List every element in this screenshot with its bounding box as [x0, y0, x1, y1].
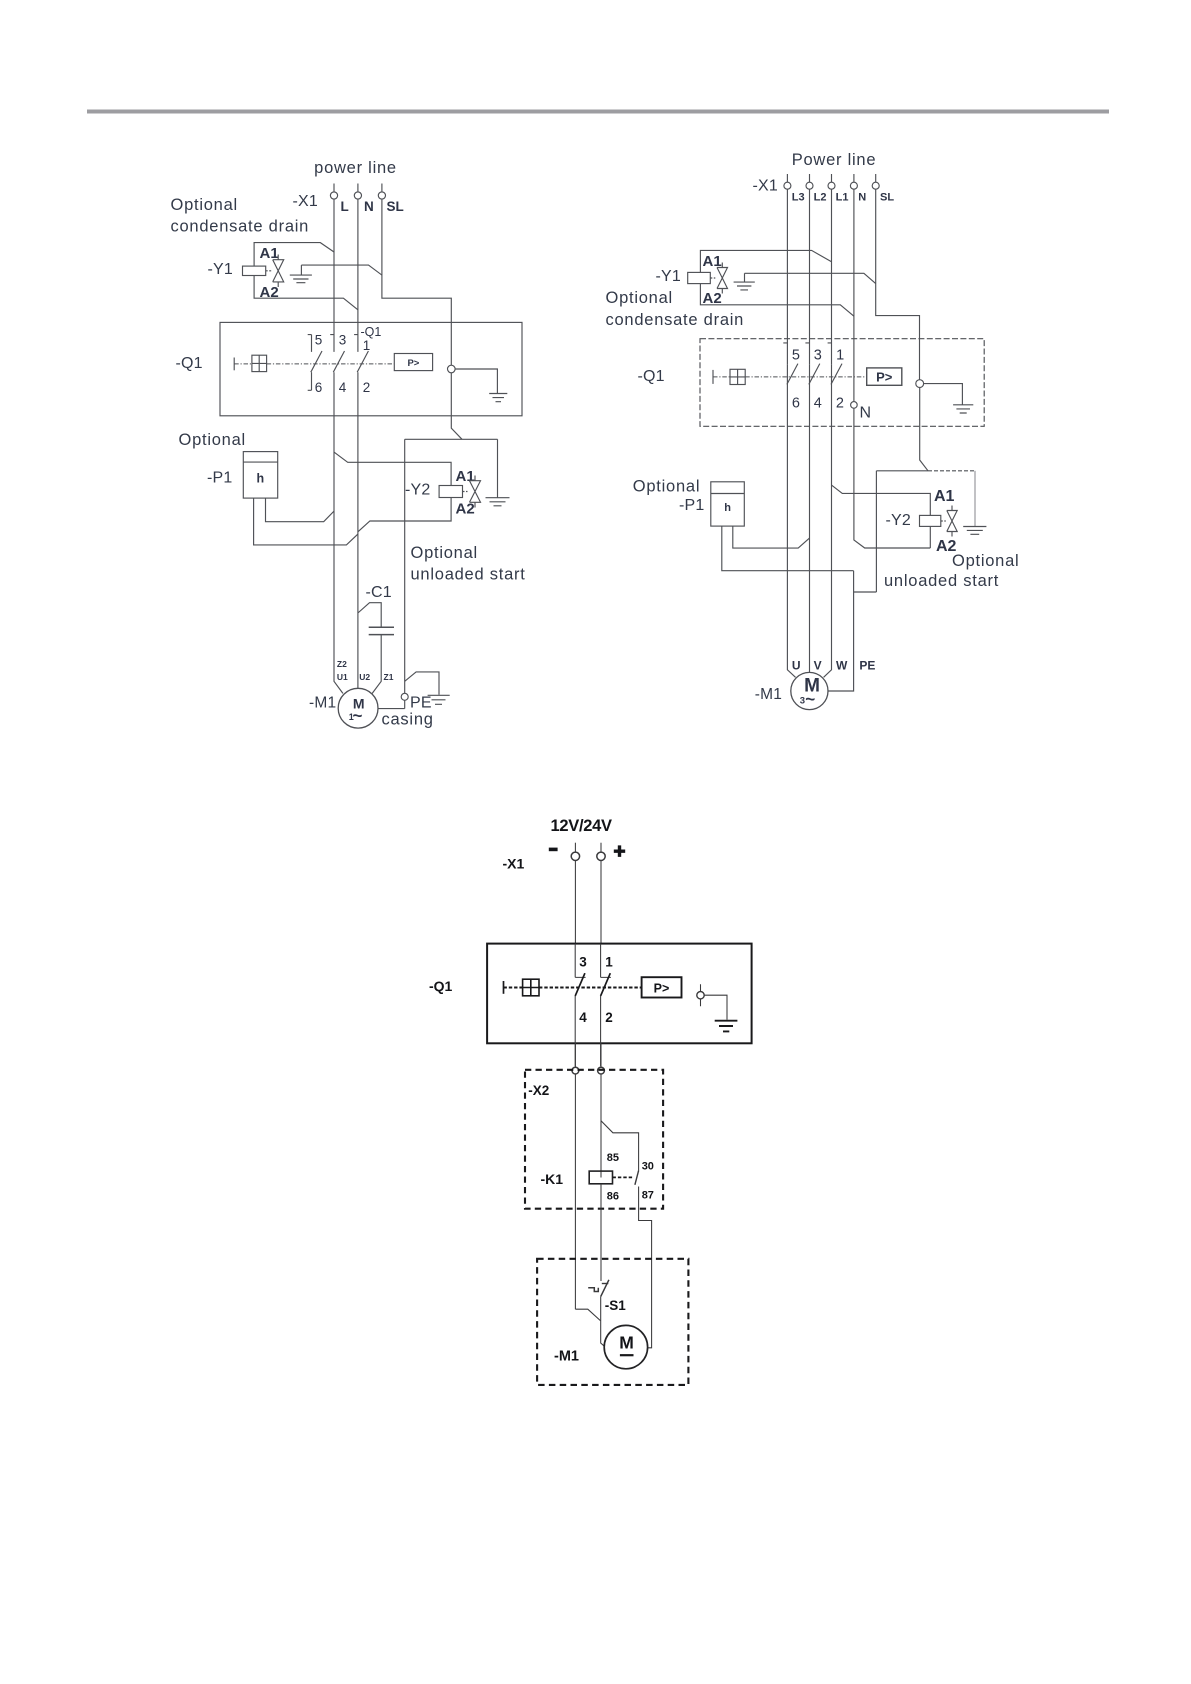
svg-text:N: N	[858, 192, 866, 204]
contact 5-6 of -Q1 (unused)	[308, 335, 322, 391]
actuator mechanism of -Q1	[234, 355, 394, 371]
pressure sensor box P> (right)	[867, 368, 902, 385]
svg-text:P>: P>	[654, 982, 670, 996]
terminal L3	[784, 174, 791, 189]
svg-text:Z1: Z1	[384, 672, 394, 682]
relay coil -K1	[589, 1171, 612, 1184]
wire SL below circle to earth tie	[920, 388, 928, 471]
svg-text:-M1: -M1	[755, 686, 782, 703]
wire 87 down to motor right	[639, 1187, 652, 1348]
pressure sensor box P>	[394, 354, 432, 371]
wire L phase (terminal to contact 3)	[333, 199, 335, 352]
pressure switch -S1	[588, 1280, 609, 1297]
svg-text:-X1: -X1	[503, 856, 525, 872]
actuator mechanism of -Q1 (right)	[713, 369, 867, 384]
wire L1 into motor W	[824, 364, 832, 677]
svg-text:PE: PE	[410, 695, 432, 712]
wire from circle to ground inside -Q1	[455, 369, 497, 394]
contact 3-4 (right, in L2)	[805, 343, 819, 385]
wire PE vertical mid (right)	[854, 471, 877, 592]
wire -Y2 A1 lead from L	[334, 452, 451, 485]
wire -Y2 A1 lead from L1 (right)	[832, 485, 931, 515]
svg-text:A1: A1	[934, 488, 955, 505]
wire: earth tie to SL	[301, 265, 382, 275]
wire branch to contact 30	[601, 1121, 639, 1171]
wire -Y2 A2 lead	[929, 526, 931, 548]
wire L1 (terminal to contact 1)	[831, 189, 833, 364]
wire -P1 right lead to L2 (right)	[733, 526, 810, 548]
wire plus to -Q1 (DC)	[600, 861, 602, 944]
svg-text:U1: U1	[337, 672, 348, 682]
terminal circle on SL line (right box)	[916, 380, 924, 388]
dashed earth link (right)	[928, 470, 975, 472]
svg-text:M: M	[619, 1333, 634, 1353]
svg-text:P>: P>	[407, 358, 419, 369]
svg-text:Optional: Optional	[633, 478, 700, 496]
svg-text:N: N	[364, 199, 374, 214]
svg-text:3: 3	[579, 954, 587, 969]
svg-text:2: 2	[605, 1010, 613, 1025]
ground symbol below -Y2 (right)	[963, 527, 986, 535]
svg-text:PE: PE	[859, 658, 875, 672]
wire N continues below circle	[854, 408, 930, 548]
terminal circle on SL line inside -Q1	[448, 365, 456, 373]
motor -M1 single phase	[338, 688, 378, 728]
terminal circle N inside -Q1 (right)	[851, 402, 858, 409]
svg-text:h: h	[257, 472, 265, 486]
terminal minus of -X2	[572, 1067, 579, 1074]
hour meter -P1 (right)	[711, 482, 745, 526]
actuator mechanism of -Q1 (DC)	[504, 979, 642, 996]
hour meter -P1	[243, 452, 277, 499]
svg-text:3: 3	[339, 333, 347, 348]
svg-text:5: 5	[792, 348, 800, 364]
solenoid coil -Y1	[243, 266, 266, 275]
svg-text:1: 1	[605, 954, 613, 969]
svg-text:Power line: Power line	[792, 151, 877, 169]
terminal SL of -X1	[378, 184, 385, 200]
svg-text:V: V	[814, 658, 822, 672]
terminal plus of -X2	[598, 1067, 605, 1074]
wire L into motor U1	[334, 372, 343, 693]
svg-text:N: N	[860, 405, 872, 422]
label plus	[614, 845, 625, 857]
svg-text:-Q1: -Q1	[638, 368, 665, 385]
contact 3-4 of -Q1 (DC, minus)	[575, 944, 585, 1067]
svg-text:-Y2: -Y2	[405, 482, 431, 499]
label Optional unloaded start (right)	[884, 552, 1019, 590]
wire -Y1 A2 lead to N (right)	[700, 284, 854, 317]
svg-text:Optional: Optional	[606, 289, 673, 307]
wire -P1 left lead to N	[254, 498, 358, 545]
svg-text:6: 6	[315, 380, 323, 395]
svg-text:Optional: Optional	[952, 552, 1019, 570]
pressure switch -Q1 enclosure (right, dashed)	[700, 339, 984, 427]
label: Optional condensate drain	[171, 196, 310, 236]
wire plus to coil 85	[600, 1074, 602, 1178]
wire minus to -Q1 (DC)	[574, 861, 576, 944]
capacitor -C1 plates	[369, 627, 394, 634]
svg-text:SL: SL	[387, 199, 404, 214]
wire N into motor U2	[357, 372, 359, 688]
pressure switch -Q1 enclosure (DC)	[487, 944, 751, 1044]
wire -S1 to motor	[601, 1297, 605, 1347]
ground symbol right of -Y2	[486, 498, 510, 506]
solenoid coil -Y1 (right)	[688, 272, 711, 283]
label Optional condensate drain (right)	[606, 289, 745, 329]
svg-text:-M1: -M1	[309, 695, 336, 712]
wire PE tie bar (right)	[876, 470, 928, 472]
svg-text:1: 1	[836, 348, 844, 364]
earth drop wire (gray)	[974, 471, 976, 526]
svg-text:2: 2	[836, 396, 844, 412]
wire L3 (terminal to contact 5)	[786, 189, 788, 364]
terminal plus of -X1 (DC)	[597, 843, 605, 861]
motor unit -M1 enclosure (dashed)	[537, 1259, 688, 1385]
svg-text:A1: A1	[456, 468, 475, 485]
wire capacitor bottom lead to Z1	[372, 635, 381, 694]
terminal N of -X1	[354, 184, 361, 200]
wire capacitor top lead from N	[358, 603, 381, 628]
motor -M1 DC	[604, 1325, 647, 1368]
wire tie bar below -Q1 (SL to PE and earth)	[405, 438, 498, 440]
valve symbol of -Y2 (right)	[941, 506, 957, 537]
svg-text:Optional: Optional	[411, 544, 478, 562]
svg-text:30: 30	[642, 1160, 654, 1172]
svg-text:SL: SL	[880, 192, 894, 204]
wire SL continues below circle	[451, 373, 462, 440]
pressure switch -Q1 enclosure box	[220, 322, 522, 415]
svg-text:A2: A2	[456, 501, 475, 518]
valve symbol of -Y1 (right)	[710, 263, 727, 294]
svg-text:-X2: -X2	[528, 1083, 549, 1098]
svg-text:6: 6	[792, 396, 800, 412]
wire N down to circle	[853, 189, 855, 401]
svg-text:-P1: -P1	[679, 497, 705, 514]
terminal L1	[828, 174, 835, 189]
svg-text:h: h	[724, 502, 731, 514]
svg-text:-Q1: -Q1	[361, 325, 382, 339]
wire motor casing to PE	[378, 700, 405, 708]
wire coil 86 down to -S1	[600, 1184, 602, 1281]
wire minus joins motor lead	[575, 1309, 600, 1320]
wires -Q1 to -X2	[575, 1043, 601, 1067]
svg-text:4: 4	[814, 396, 822, 412]
svg-text:~: ~	[805, 690, 815, 709]
relay unit -X2 enclosure (dashed)	[525, 1070, 663, 1209]
wire PE to earth	[405, 672, 439, 695]
svg-text:casing: casing	[382, 711, 434, 729]
svg-text:5: 5	[315, 333, 323, 348]
valve symbol of -Y2	[463, 476, 481, 508]
svg-text:condensate drain: condensate drain	[606, 311, 745, 329]
contact 5-6 (right, in L3)	[783, 343, 798, 385]
svg-text:Z2: Z2	[337, 659, 347, 669]
svg-text:-X1: -X1	[293, 193, 319, 210]
contact 3-4 of -Q1 (in L wire)	[330, 335, 344, 373]
svg-text:-Y1: -Y1	[656, 268, 682, 285]
svg-text:-Q1: -Q1	[176, 355, 203, 372]
svg-text:unloaded start: unloaded start	[884, 572, 999, 590]
svg-text:87: 87	[642, 1189, 654, 1201]
ground symbol near -Y1	[290, 265, 312, 283]
terminal L of -X1	[330, 184, 337, 200]
svg-text:-M1: -M1	[554, 1349, 579, 1365]
svg-text:condensate drain: condensate drain	[171, 218, 310, 236]
terminal minus of -X1 (DC)	[571, 843, 579, 861]
svg-text:-S1: -S1	[605, 1298, 627, 1313]
svg-text:2: 2	[363, 380, 371, 395]
svg-text:86: 86	[607, 1190, 619, 1202]
wire: -Y1 A2 lead to N wire	[254, 276, 358, 310]
valve symbol of -Y1	[266, 255, 284, 288]
svg-text:-C1: -C1	[366, 584, 392, 601]
label Optional unloaded start	[411, 544, 526, 584]
svg-text:4: 4	[579, 1010, 587, 1025]
terminal L2	[806, 174, 813, 189]
wire PE node drop to motor (right)	[828, 571, 854, 691]
ground symbol at casing	[428, 695, 450, 704]
svg-text:U: U	[792, 658, 801, 672]
relay contact 30-87 blade	[635, 1171, 639, 1185]
svg-text:~: ~	[353, 706, 363, 725]
wire L2 (terminal to contact 3)	[809, 189, 811, 364]
ground symbol inside -Q1	[489, 394, 507, 402]
motor -M1 three phase	[791, 672, 828, 709]
wire minus through -X2	[574, 1074, 576, 1309]
svg-text:-X1: -X1	[753, 178, 779, 195]
earth terminal circle (DC)	[697, 984, 704, 1006]
contact 1-2 of -Q1 (DC, plus)	[601, 944, 611, 1067]
svg-text:-K1: -K1	[541, 1171, 564, 1187]
wire -Y2 A2 lead to N	[358, 498, 451, 532]
wire N (terminal to contact 1)	[357, 199, 359, 352]
svg-text:-Y1: -Y1	[208, 261, 234, 278]
wire earth tie to SL (right)	[745, 273, 876, 283]
svg-text:L3: L3	[792, 192, 805, 204]
svg-text:P>: P>	[876, 370, 893, 385]
wire SL over and down to circle	[876, 189, 920, 380]
wire to ground (DC)	[704, 995, 727, 1020]
svg-text:power line: power line	[314, 159, 397, 177]
terminal N (right)	[850, 174, 857, 189]
pressure sensor box P> (DC)	[642, 977, 682, 997]
wire -P1 right lead to L	[266, 498, 335, 522]
svg-text:12V/24V: 12V/24V	[551, 817, 612, 835]
wire SL (terminal, down, over to pressure-switch circle)	[382, 199, 451, 365]
dashed link coil to contact	[613, 1176, 635, 1178]
terminal SL (right)	[872, 174, 879, 189]
svg-text:85: 85	[607, 1152, 619, 1164]
solenoid coil -Y2 (right)	[920, 515, 941, 526]
wire -Y1 A1 lead from L1 (right)	[700, 250, 831, 272]
svg-text:3: 3	[800, 696, 805, 707]
svg-text:L1: L1	[836, 192, 849, 204]
ground symbol inside -Q1 (right)	[953, 405, 973, 413]
svg-text:U2: U2	[359, 672, 370, 682]
wire L2 into motor V	[809, 364, 811, 672]
contact 1-2 of -Q1 (in N wire)	[354, 335, 368, 373]
svg-text:1: 1	[363, 338, 371, 353]
contact 1-2 (right, in L1)	[828, 343, 842, 385]
svg-text:-Q1: -Q1	[429, 978, 453, 994]
ground symbol near -Y1 (right)	[734, 273, 755, 290]
wire: -Y1 A1 lead from L wire	[254, 243, 334, 267]
svg-text:unloaded start: unloaded start	[411, 566, 526, 584]
wire -P1 left lead to PE node (right)	[722, 526, 854, 571]
svg-text:4: 4	[339, 380, 347, 395]
wire L3 into motor U	[787, 364, 795, 677]
svg-text:L2: L2	[814, 192, 827, 204]
svg-text:W: W	[836, 658, 848, 672]
PE terminal circle	[401, 693, 408, 700]
svg-text:3: 3	[814, 348, 822, 364]
ground symbol (DC)	[715, 1021, 738, 1032]
svg-text:Optional: Optional	[179, 431, 246, 449]
wire earth drop	[497, 439, 499, 497]
wire PE drop	[404, 439, 406, 693]
svg-text:Optional: Optional	[171, 196, 238, 214]
svg-text:-P1: -P1	[207, 470, 233, 487]
wire circle to ground (right box)	[924, 384, 963, 405]
svg-text:L: L	[341, 199, 349, 214]
svg-text:-Y2: -Y2	[886, 512, 912, 529]
top horizontal rule	[87, 110, 1109, 114]
label minus	[549, 848, 558, 852]
solenoid coil -Y2	[439, 486, 462, 498]
